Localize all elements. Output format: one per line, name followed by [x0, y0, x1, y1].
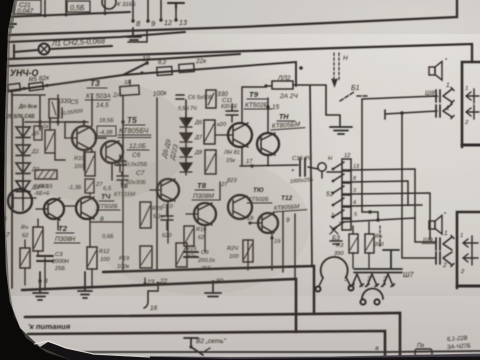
label T2	[56, 224, 74, 233]
resistor R10	[74, 152, 95, 176]
ground under node 8	[127, 28, 141, 40]
wire lower rails	[123, 160, 272, 270]
wire top rail	[4, 12, 130, 17]
transistor T2	[36, 198, 64, 220]
label SH9	[422, 237, 436, 244]
diode D1	[16, 127, 40, 138]
node 19	[142, 55, 150, 65]
fuse Pr	[415, 343, 432, 356]
transistor T6	[150, 179, 179, 201]
resistor R15	[176, 243, 197, 267]
wire bus E	[22, 279, 296, 332]
label T4	[99, 193, 114, 201]
resistor small left	[34, 126, 42, 140]
wire jack SH8 row1	[362, 96, 437, 99]
wire PP2 to B1	[303, 85, 340, 126]
voltage box 0.5ЬВ	[67, 1, 90, 12]
resistor R low-left hatched	[35, 170, 57, 190]
capacitor C3	[37, 252, 70, 272]
wire bottom rect outer	[25, 313, 400, 360]
potentiometer B3 circle	[316, 257, 354, 292]
pin 2	[382, 274, 395, 287]
resistor R20	[204, 120, 227, 144]
resistor R8 on line C	[179, 58, 207, 72]
node 19b	[270, 236, 281, 245]
switch S1 contacts	[332, 159, 351, 230]
wire output row	[240, 165, 342, 172]
resistor R7 on line C	[157, 60, 173, 75]
resistor R12	[87, 247, 110, 269]
diode D4	[16, 181, 40, 192]
label T8	[195, 181, 214, 190]
label R4 390	[374, 234, 384, 248]
switch B2 set	[184, 338, 210, 355]
small circle contact	[318, 163, 326, 178]
dark bottom band	[40, 342, 480, 360]
resistor R26	[140, 202, 164, 228]
arrowhead B1 link	[332, 79, 337, 86]
node dots SH9 wires	[368, 210, 380, 222]
node 80	[211, 278, 223, 285]
capacitor C7 plates	[117, 172, 128, 186]
pin 3	[366, 274, 379, 287]
antenna T-bar	[168, 3, 184, 8]
pin X left	[330, 226, 338, 234]
jack SH9 contacts row1	[436, 238, 440, 250]
label T9	[247, 90, 267, 99]
wire web T2	[12, 198, 76, 290]
node 12	[159, 18, 172, 27]
wire small box left of node8	[128, 30, 147, 42]
wire node16 drop	[144, 285, 158, 312]
ground x40	[33, 272, 48, 300]
label T12 type	[273, 204, 307, 212]
wire lamp row	[14, 45, 112, 58]
wire diode stack rail	[185, 116, 187, 175]
diode D9	[180, 163, 192, 172]
headphone arc	[360, 289, 383, 305]
ground small left	[330, 241, 342, 244]
label T11 type	[271, 121, 305, 130]
capacitor C14	[290, 156, 314, 185]
wire T4 region	[90, 193, 123, 247]
wire T9 rail	[242, 87, 268, 166]
resistor R4b	[365, 234, 374, 253]
diode D8	[180, 148, 203, 157]
arrows box2	[460, 233, 478, 275]
diode chain rail	[22, 118, 24, 200]
wire border line A ghost	[8, 32, 185, 42]
resistor R9	[38, 124, 55, 153]
node dots line C	[22, 71, 143, 90]
transistor T10b circle	[228, 195, 252, 219]
wire S1 to jacks	[351, 169, 430, 240]
transistor T1 (clipped at top)	[102, 0, 116, 9]
capacitor C9	[184, 250, 216, 272]
label T10 type	[247, 197, 272, 203]
pin 5	[344, 274, 364, 287]
wire vertical x310	[310, 86, 312, 266]
label T4 type	[96, 204, 120, 210]
capacitor C21	[8, 0, 41, 15]
node on row2	[400, 111, 404, 115]
ground top-left	[2, 17, 16, 27]
node 15	[266, 104, 279, 111]
resistor 330 vertical	[49, 98, 71, 118]
ground B1	[330, 127, 352, 134]
dark bottom band gray right	[92, 353, 480, 359]
resistor R19	[140, 246, 152, 268]
connector box 1 right	[462, 62, 480, 147]
node 9	[146, 19, 156, 28]
label T3	[87, 78, 107, 88]
resistor R4	[33, 227, 43, 251]
label 12.0B	[127, 143, 149, 150]
wire y219 to SH9	[342, 218, 436, 242]
speaker SH9	[429, 212, 447, 234]
label R22 15k	[223, 150, 240, 164]
label T5 type	[118, 127, 151, 138]
diode D3	[16, 163, 40, 174]
label R4 62	[21, 225, 29, 239]
transistor T10	[250, 213, 278, 233]
fuse PP2	[264, 66, 303, 89]
mid rail wires	[123, 95, 186, 270]
wire diagonal to node 19	[123, 63, 147, 75]
label T5	[124, 115, 145, 125]
label R3 390	[334, 243, 344, 257]
resistor R21	[205, 150, 216, 174]
dark photo edge left	[0, 0, 70, 360]
resistor R6 on line C	[120, 80, 140, 96]
wire bus D	[103, 266, 314, 314]
ground x85	[78, 272, 92, 298]
wire line C	[8, 62, 296, 91]
transistor T4b	[76, 197, 98, 219]
resistor R16	[184, 226, 207, 246]
resistor R18	[206, 90, 228, 108]
resistor R21b	[243, 240, 253, 262]
paper edge highlight bottom-left	[34, 341, 150, 357]
node 23	[143, 278, 154, 286]
capacitor C8 top	[176, 95, 213, 112]
label T2 type	[54, 236, 80, 243]
label R19 100k	[117, 256, 130, 270]
resistor R2 left	[20, 248, 30, 268]
wire border line A	[8, 0, 457, 35]
wire assorted left	[12, 95, 88, 125]
resistor 27 vertical	[85, 179, 103, 193]
node 17	[246, 159, 254, 168]
wire bottom rect inner	[28, 331, 385, 360]
diode D7	[180, 133, 203, 142]
capacitor C6 plates	[115, 155, 126, 172]
left rail wire	[11, 90, 13, 288]
label T3 type	[85, 93, 111, 100]
jack SH9 contacts row2	[436, 252, 440, 264]
capacitor bar right	[383, 250, 399, 268]
transistor T8 circle mid	[257, 133, 279, 155]
node 8	[131, 19, 141, 28]
wire border line B ghost	[8, 54, 240, 66]
label contact numbers	[330, 164, 359, 219]
wire bottom line	[65, 351, 480, 352]
switch B1 dashed link	[334, 53, 339, 81]
transistor T8	[186, 203, 216, 225]
resistor R5b	[29, 82, 44, 91]
node 13	[174, 18, 187, 27]
wire web upper amp	[23, 95, 112, 210]
transistor T7 circle	[216, 123, 252, 147]
speaker SH8	[429, 58, 448, 80]
diode D2	[16, 145, 39, 156]
switch S1 mech dashed	[379, 226, 381, 246]
label SH8	[424, 90, 438, 97]
diode D6	[180, 118, 203, 127]
fork pin1 SH9	[443, 230, 454, 250]
wire jack SH8 row2	[385, 110, 437, 119]
node 18	[247, 216, 254, 225]
wire R3 R4 leads	[353, 222, 369, 268]
jack SH8 contacts row2	[436, 105, 440, 117]
fork pin2 SH8	[443, 104, 454, 119]
wire stubs from top edge	[45, 0, 105, 16]
wire x402 down	[402, 113, 436, 258]
capacitor C5	[58, 99, 83, 118]
dark photo edge left penumbra	[4, 0, 70, 360]
capacitor C11	[221, 98, 238, 122]
wire border line B	[8, 44, 472, 62]
connector box 2 right	[457, 212, 480, 288]
resistor R5a	[8, 83, 21, 91]
arrows box1	[464, 86, 479, 126]
transistor T1 partial circle	[8, 189, 32, 213]
wire stubs nodes 8 9 12 13	[133, 0, 176, 21]
node 22	[156, 278, 167, 285]
fork pin2 SH9	[442, 252, 454, 269]
lamp L1	[39, 44, 50, 55]
node dots top rail	[6, 12, 106, 19]
ground x213	[205, 282, 221, 297]
label T8 type	[192, 193, 220, 200]
label -4.3V box	[97, 126, 116, 136]
wire R12 down	[91, 269, 93, 288]
switch B1 lever	[340, 92, 369, 101]
transistor T4 circle right	[101, 141, 123, 163]
capacitor C10	[161, 204, 174, 239]
resistor R3	[349, 234, 358, 253]
fork pin1 SH8	[443, 82, 454, 104]
wire T12 rails	[283, 212, 295, 279]
connector SH7 bar	[354, 269, 402, 273]
jack SH8 contacts row1	[436, 90, 440, 102]
label T9 type	[244, 102, 272, 109]
label T11	[277, 113, 295, 121]
label R24 100	[227, 246, 239, 260]
wire x362 down	[362, 99, 378, 221]
transistor T3 circle	[65, 126, 96, 150]
